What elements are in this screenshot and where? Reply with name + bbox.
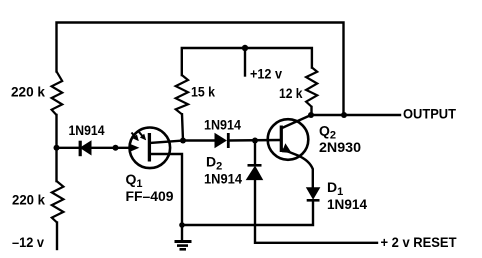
svg-text:1N914: 1N914 (204, 117, 241, 133)
wire: 15k bottom lead (182, 114, 183, 140)
diode D1 (cathode bar) (307, 199, 320, 202)
svg-text:–12 v: –12 v (12, 234, 44, 250)
svg-text:2N930: 2N930 (319, 139, 361, 155)
wire: diode to Q1 (91, 147, 132, 149)
diode 1N914 (left, triangle pointing left) (81, 141, 92, 154)
wire: left node horizontal (57, 147, 81, 149)
wire: left vertical mid (55, 115, 57, 181)
junction dot: base node (180, 138, 186, 144)
wire: diode to Q2 base (229, 139, 281, 142)
diode 1N914 (middle, triangle pointing right) (215, 134, 226, 148)
ground stub (181, 225, 183, 241)
junction dot: output at right vertical (341, 112, 347, 118)
diode D1 (triangle pointing down) (307, 188, 320, 199)
wire: left vertical bottom (-12v lead) (56, 223, 58, 250)
wire: +12v rail (182, 48, 312, 75)
wire: base node to diode (183, 139, 215, 141)
transistor Q2 circle (268, 119, 309, 160)
svg-text:OUTPUT: OUTPUT (403, 106, 456, 122)
Q1 photo arrow 2 (139, 132, 146, 140)
Q2 base bar (280, 126, 283, 153)
svg-text:1N914: 1N914 (327, 196, 367, 212)
svg-text:FF–409: FF–409 (126, 188, 174, 204)
junction dot: ground (179, 222, 185, 228)
svg-text:12 k: 12 k (279, 85, 303, 101)
junction dot: diode to Q1 (113, 145, 119, 151)
resistor 15k (176, 75, 188, 114)
Q1 base bar (148, 133, 151, 162)
diode 1N914 (left, cathode bar) (79, 141, 82, 157)
junction dot: +12v rail (242, 45, 248, 51)
junction dot: Q2 base / D2 (252, 138, 258, 144)
wire: Q2 emitter to D1 (282, 149, 313, 188)
wire: 12k bottom lead (310, 107, 312, 115)
wire: Q1 top to base node (150, 141, 183, 144)
junction dot: left node at 220k (54, 145, 60, 151)
Q1 left lead arrowhead (130, 145, 138, 152)
Q2 emitter arrowhead (283, 145, 291, 153)
Q1 photo arrow 1 (132, 133, 139, 141)
svg-text:1N914: 1N914 (204, 171, 242, 187)
svg-text:+ 2 v RESET: + 2 v RESET (381, 234, 457, 250)
wire: D2 branch upper (254, 141, 256, 166)
wire: output line (311, 114, 400, 116)
phototransistor Q1 circle (130, 128, 171, 169)
svg-text:220 k: 220 k (12, 192, 45, 208)
ground symbol (175, 242, 192, 250)
svg-text:1N914: 1N914 (69, 122, 105, 138)
wire: top rail (57, 23, 344, 116)
svg-text:15 k: 15 k (191, 84, 215, 100)
resistor 12k (306, 68, 317, 108)
Q2 collector line (282, 115, 311, 128)
wire: D2 branch lower to reset line (255, 180, 377, 243)
resistor 220k (bottom) (52, 181, 64, 223)
wire: Q1 emitter down (150, 154, 182, 225)
svg-text:+12 v: +12 v (250, 66, 282, 82)
svg-text:220 k: 220 k (11, 84, 45, 100)
wire: ground rail (182, 201, 313, 225)
resistor 220k (top) (52, 71, 63, 115)
diode 1N914 (middle, cathode bar) (227, 133, 230, 148)
diode D2 (triangle pointing up) (247, 167, 263, 180)
diode D2 (cathode bar, up) (248, 164, 262, 167)
+12v terminal stub (244, 48, 246, 76)
junction dot: collector-output (308, 112, 314, 118)
